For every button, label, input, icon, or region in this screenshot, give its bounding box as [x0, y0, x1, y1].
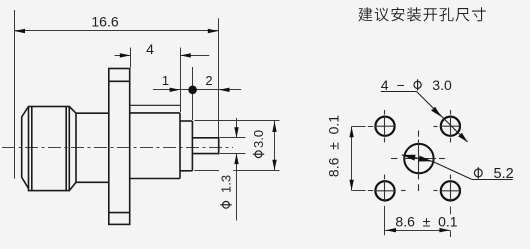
- coupling nut hex body: [29, 107, 77, 191]
- svg-text:1: 1: [162, 73, 169, 88]
- svg-text:16.6: 16.6: [91, 14, 118, 30]
- title: recommended mounting hole dimensions (CJK vector glyphs): [358, 7, 485, 21]
- phi symbol: [474, 169, 482, 177]
- connector rear nut back piece: [22, 107, 29, 189]
- svg-text:−: −: [397, 77, 405, 93]
- threaded front cylinder right of flange: [130, 113, 180, 179]
- thread crest line: [130, 104, 180, 106]
- svg-text:8.6 ± 0.1: 8.6 ± 0.1: [326, 115, 342, 177]
- mounting hole top-left phi3.0: [375, 117, 394, 136]
- mounting hole bottom-left phi3.0: [375, 181, 394, 200]
- svg-text:3.0: 3.0: [432, 77, 452, 93]
- leader phi5.2 from center hole with diameter arrows: [402, 155, 513, 180]
- dimension phi 3.0 bushing diameter: [194, 121, 279, 171]
- datum junction dot: [188, 86, 197, 95]
- svg-text:1.3: 1.3: [219, 175, 234, 193]
- dimension phi 1.3 pin diameter: [220, 118, 246, 221]
- svg-text:8.6 ± 0.1: 8.6 ± 0.1: [395, 213, 457, 229]
- dimension 16.6 overall length: [14, 10, 219, 179]
- svg-text:4: 4: [381, 77, 389, 93]
- svg-text:4: 4: [146, 41, 154, 57]
- mounting hole bottom-right phi3.0: [441, 181, 460, 200]
- insulator bushing: [180, 121, 192, 171]
- vertical dimension 8.6 +/- 0.1: [352, 126, 374, 191]
- mounting flange plate: [109, 69, 130, 225]
- phi symbol: [414, 81, 421, 88]
- middle cylinder between nut and flange: [76, 113, 109, 182]
- svg-text:2: 2: [205, 73, 212, 88]
- center hole phi5.2: [404, 144, 433, 173]
- dimension 4: [115, 48, 210, 113]
- svg-text:5.2: 5.2: [494, 166, 514, 182]
- mounting hole top-right phi3.0: [441, 117, 460, 136]
- dimensions 1 and 2: [153, 67, 241, 120]
- center contact pin: [192, 137, 218, 155]
- horizontal dimension 8.6 +/- 0.1: [385, 206, 451, 237]
- centerline of connector axis: [2, 147, 233, 149]
- svg-text:3.0: 3.0: [251, 130, 266, 148]
